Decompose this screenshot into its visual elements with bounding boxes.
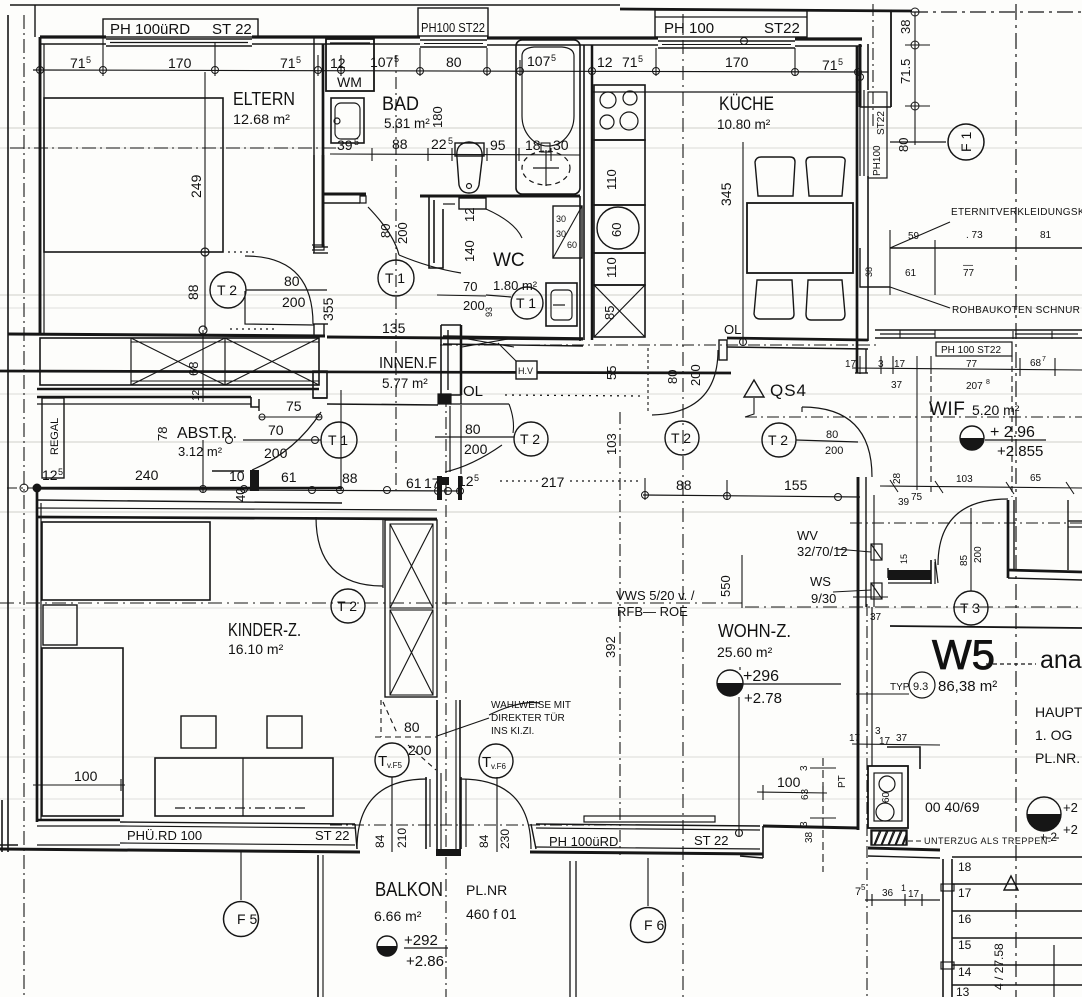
svg-text:T 2: T 2 bbox=[671, 430, 691, 446]
axis dash-dot vertical x683 (kueche/balkon) bbox=[682, 14, 684, 997]
axis dash-dot vertical x867 (stair side) bbox=[866, 604, 868, 997]
stair elevation marker bbox=[1027, 797, 1061, 831]
svg-text:170: 170 bbox=[725, 54, 749, 70]
svg-text:38: 38 bbox=[864, 267, 874, 277]
optional door dashed kinder bbox=[380, 700, 382, 737]
south band right of doors bbox=[531, 824, 536, 849]
svg-text:3.12 m²: 3.12 m² bbox=[178, 444, 223, 459]
svg-text:40: 40 bbox=[233, 488, 248, 502]
svg-text:110: 110 bbox=[604, 257, 619, 278]
balcony bench bbox=[584, 816, 715, 822]
svg-text:107: 107 bbox=[527, 53, 551, 69]
corridor 135 line bbox=[340, 390, 342, 490]
wif tag box bbox=[936, 342, 1012, 356]
bad washing machine WM bbox=[326, 39, 374, 91]
corridor pillar cap bbox=[438, 394, 451, 404]
dotted corridor line bbox=[505, 395, 643, 396]
svg-text:F 5: F 5 bbox=[237, 911, 257, 927]
kueche east wall bbox=[856, 46, 859, 341]
svg-text:550: 550 bbox=[718, 575, 733, 597]
bad toilet bowl bbox=[457, 142, 482, 193]
svg-text:200: 200 bbox=[264, 445, 288, 461]
window eltern bbox=[106, 38, 252, 40]
t3 door leaf bbox=[930, 560, 932, 584]
svg-text:6.66 m²: 6.66 m² bbox=[374, 908, 422, 924]
svg-text:60: 60 bbox=[609, 223, 624, 237]
svg-text:77: 77 bbox=[966, 359, 978, 370]
stair direction triangle bbox=[1004, 876, 1018, 890]
kinder chairs bbox=[181, 716, 216, 748]
svg-text:17: 17 bbox=[849, 733, 861, 744]
kinder south wall solid part bbox=[37, 819, 120, 822]
svg-text:F 6: F 6 bbox=[644, 917, 664, 933]
balkon elevation marker bbox=[377, 936, 397, 956]
svg-text:+2.78: +2.78 bbox=[744, 690, 782, 707]
window bad bbox=[420, 39, 487, 41]
svg-text:10: 10 bbox=[229, 468, 245, 484]
svg-text:17: 17 bbox=[908, 889, 920, 900]
kueche interior north face bbox=[593, 91, 860, 93]
svg-text:71.5: 71.5 bbox=[898, 59, 913, 84]
axis dash-dot vertical x873 (east wall) bbox=[872, 4, 874, 130]
svg-text:T 2: T 2 bbox=[520, 431, 540, 447]
f5 marker line bbox=[240, 852, 242, 900]
vestibule/corridor north band bbox=[327, 337, 583, 339]
stove burners bbox=[600, 92, 616, 108]
svg-text:5: 5 bbox=[296, 55, 301, 65]
svg-text:PHÜ.RD 100: PHÜ.RD 100 bbox=[127, 828, 202, 843]
svg-text:200: 200 bbox=[464, 441, 488, 457]
east upper wall corner down bbox=[859, 44, 862, 107]
svg-text:70: 70 bbox=[268, 422, 284, 438]
wc west wall bbox=[429, 196, 443, 268]
kinder wardrobe top bbox=[42, 522, 210, 600]
eltern 88 dim line bbox=[202, 330, 204, 492]
unterzug hatch box bbox=[871, 830, 907, 845]
leader wahlweise bbox=[437, 718, 489, 736]
svg-text:13: 13 bbox=[956, 985, 970, 997]
svg-text:95: 95 bbox=[490, 137, 506, 153]
svg-text:103: 103 bbox=[956, 474, 973, 485]
svg-text:W5: W5 bbox=[932, 631, 995, 678]
svg-text:107: 107 bbox=[370, 54, 394, 70]
svg-text:80: 80 bbox=[826, 429, 838, 441]
svg-text:H.V: H.V bbox=[518, 366, 533, 376]
svg-text:12.68 m²: 12.68 m² bbox=[233, 112, 291, 127]
svg-text:88: 88 bbox=[342, 470, 358, 486]
svg-text:T 1: T 1 bbox=[328, 432, 348, 448]
svg-text:9.3: 9.3 bbox=[913, 681, 928, 693]
svg-text:T: T bbox=[482, 754, 491, 771]
balcony west edge bbox=[317, 855, 319, 997]
svg-text:18: 18 bbox=[958, 860, 972, 874]
kinder side table bbox=[43, 605, 77, 645]
svg-text:80: 80 bbox=[465, 421, 481, 437]
kitchen counter column bbox=[594, 85, 645, 140]
w5 area north line bbox=[890, 626, 1082, 628]
eltern west wall bbox=[39, 37, 42, 333]
svg-text:KINDER-Z.: KINDER-Z. bbox=[228, 620, 301, 640]
svg-text:ELTERN: ELTERN bbox=[233, 89, 295, 109]
T1 circle entry bbox=[378, 260, 414, 296]
svg-text:36: 36 bbox=[882, 888, 894, 899]
axis dash-dot horizontal y417 WIF bbox=[745, 416, 1082, 418]
svg-text:5.77 m²: 5.77 m² bbox=[382, 376, 428, 391]
svg-text:3: 3 bbox=[799, 765, 810, 771]
wohnz south wall east part bbox=[763, 826, 858, 828]
svg-text:16: 16 bbox=[958, 912, 972, 926]
kinder west wall bbox=[36, 488, 39, 822]
svg-text:+2: +2 bbox=[1063, 822, 1078, 837]
east outer wall top right bbox=[1007, 500, 1010, 578]
hv box bbox=[516, 361, 537, 379]
svg-text:93: 93 bbox=[484, 307, 494, 317]
eternit leader bbox=[890, 222, 950, 248]
svg-text:81: 81 bbox=[1040, 230, 1052, 241]
svg-text:200: 200 bbox=[825, 445, 843, 457]
svg-text:180: 180 bbox=[430, 106, 445, 128]
svg-text:60: 60 bbox=[567, 240, 577, 250]
kueche north wall + window bbox=[594, 36, 658, 39]
vent shaft 30/60 bbox=[553, 206, 582, 258]
svg-text:PL.NR.: PL.NR. bbox=[1035, 750, 1080, 766]
abst 75 dim bbox=[259, 416, 322, 418]
window tag box PH 100 ST22 (kueche) bbox=[655, 10, 807, 37]
wif dashed verticals bbox=[930, 376, 932, 495]
F1 circle bbox=[948, 124, 984, 160]
eltern door stubs bbox=[313, 324, 315, 336]
counter cell 4 bbox=[594, 253, 645, 285]
svg-text:78: 78 bbox=[155, 427, 170, 441]
svg-text:84: 84 bbox=[373, 834, 387, 848]
door T2 wif arc bbox=[802, 407, 872, 477]
wif west wall lower bbox=[857, 532, 860, 830]
kueche table bbox=[747, 203, 853, 273]
svg-text:PH100 ST22: PH100 ST22 bbox=[421, 20, 485, 35]
svg-text:16.10 m²: 16.10 m² bbox=[228, 641, 284, 657]
svg-text:68: 68 bbox=[1030, 358, 1042, 369]
F5 circle bbox=[224, 902, 259, 937]
ws niche marks bbox=[871, 544, 882, 560]
axis dash-dot elbow QS4 bbox=[745, 398, 754, 417]
svg-text:INNEN.F: INNEN.F bbox=[379, 355, 437, 372]
svg-text:207: 207 bbox=[966, 381, 983, 392]
kochnische hatch bbox=[872, 831, 906, 845]
svg-text:12: 12 bbox=[330, 55, 346, 71]
wc 70/200 line bbox=[437, 295, 486, 296]
door T1 entry arc (bad) bbox=[368, 207, 399, 255]
bad west wall bbox=[313, 155, 315, 250]
svg-text:PL.NR: PL.NR bbox=[466, 882, 507, 898]
svg-text:25.60 m²: 25.60 m² bbox=[717, 644, 773, 660]
kueche door post bbox=[719, 340, 727, 360]
svg-text:UNTERZUG ALS TREPPEN-: UNTERZUG ALS TREPPEN- bbox=[924, 836, 1051, 846]
wif dim rows bbox=[852, 368, 1082, 370]
svg-text:WIF: WIF bbox=[929, 399, 965, 420]
svg-text:5.31 m²: 5.31 m² bbox=[384, 116, 430, 131]
svg-text:3: 3 bbox=[799, 821, 810, 827]
svg-text:F 1: F 1 bbox=[958, 132, 974, 152]
svg-text:71: 71 bbox=[70, 55, 86, 71]
T2 circle eltern bbox=[210, 272, 246, 308]
svg-text:30: 30 bbox=[556, 229, 566, 239]
svg-text:22: 22 bbox=[431, 136, 447, 152]
svg-text:PH 100 ST22: PH 100 ST22 bbox=[941, 345, 1001, 356]
svg-text:140: 140 bbox=[462, 240, 477, 262]
witness ticks for top dims bbox=[103, 37, 795, 76]
svg-text:WOHN-Z.: WOHN-Z. bbox=[718, 621, 791, 641]
svg-text:v.F6: v.F6 bbox=[491, 762, 507, 771]
svg-text:5: 5 bbox=[474, 473, 479, 483]
svg-text:+2.86: +2.86 bbox=[406, 953, 444, 970]
abst 70/200 dim bbox=[226, 437, 233, 444]
wohnz 100 dim bbox=[757, 792, 827, 793]
svg-text:T 1: T 1 bbox=[385, 270, 405, 286]
eltern south wall bbox=[8, 334, 325, 336]
kueche east window bbox=[859, 90, 861, 176]
hall north wall lower line bbox=[37, 388, 319, 391]
abst.r door post (filled) bbox=[250, 470, 259, 491]
top border line bbox=[10, 4, 620, 6]
svg-text:230: 230 bbox=[498, 829, 512, 849]
svg-text:+2.855: +2.855 bbox=[997, 443, 1043, 460]
svg-text:88: 88 bbox=[392, 136, 408, 152]
svg-text:WC: WC bbox=[493, 250, 525, 271]
svg-text:200: 200 bbox=[688, 364, 703, 386]
svg-text:200: 200 bbox=[973, 546, 984, 563]
axis dash-dot vertical x24 bbox=[23, 15, 25, 997]
svg-text:T 2: T 2 bbox=[337, 598, 357, 614]
svg-text:ST22: ST22 bbox=[876, 111, 887, 135]
balcony door F6 leaf bbox=[460, 777, 462, 849]
svg-text:37: 37 bbox=[896, 733, 908, 744]
svg-text:7: 7 bbox=[1042, 356, 1046, 363]
svg-text:+292: +292 bbox=[404, 932, 438, 949]
f5 witness line bbox=[391, 777, 393, 852]
svg-text:37: 37 bbox=[870, 612, 882, 623]
door T2 kueche arc bbox=[652, 350, 718, 415]
bad sink cabinet bbox=[331, 98, 364, 143]
svg-text:T 2: T 2 bbox=[768, 432, 788, 448]
niche west line bbox=[871, 607, 873, 766]
svg-text:5: 5 bbox=[861, 883, 866, 892]
svg-text:88: 88 bbox=[185, 284, 201, 300]
svg-text:80: 80 bbox=[284, 273, 300, 289]
svg-text:55: 55 bbox=[604, 366, 619, 380]
T1 circle abst.r bbox=[321, 422, 357, 458]
wif west wall pillar bbox=[857, 477, 860, 532]
svg-text:. 73: . 73 bbox=[966, 230, 983, 241]
svg-text:ETERNITVERKLEIDUNGSKOT: ETERNITVERKLEIDUNGSKOT bbox=[951, 207, 1082, 218]
wc east wall bbox=[579, 196, 581, 341]
svg-text:345: 345 bbox=[718, 182, 734, 206]
svg-text:4 / 27.58: 4 / 27.58 bbox=[992, 943, 1006, 990]
svg-text:5: 5 bbox=[838, 57, 843, 67]
svg-text:WAHLWEISE MIT: WAHLWEISE MIT bbox=[491, 700, 571, 711]
svg-text:5: 5 bbox=[551, 53, 556, 63]
T2 circle wif bbox=[762, 423, 796, 457]
kinder north wall band bbox=[37, 487, 342, 490]
qs4 triangle bbox=[744, 380, 764, 397]
svg-text:80: 80 bbox=[446, 54, 462, 70]
svg-text:ST 22: ST 22 bbox=[694, 833, 728, 848]
svg-text:18: 18 bbox=[525, 137, 541, 153]
scan streak lines bbox=[0, 127, 1082, 129]
svg-text:WV: WV bbox=[797, 528, 818, 543]
east mid dims y248-287 bbox=[889, 230, 891, 295]
svg-text:8: 8 bbox=[986, 379, 990, 386]
svg-text:+296: +296 bbox=[743, 668, 779, 685]
svg-text:ST 22: ST 22 bbox=[315, 828, 349, 843]
svg-text:460 f 01: 460 f 01 bbox=[466, 906, 517, 922]
sw corner wall bbox=[0, 844, 18, 846]
svg-text:T: T bbox=[378, 753, 387, 770]
svg-text:T 3: T 3 bbox=[960, 600, 980, 616]
wohnz 550 dim bbox=[741, 555, 743, 608]
wif lower door arc bbox=[938, 499, 1008, 565]
svg-text:17: 17 bbox=[845, 359, 857, 370]
svg-text:5: 5 bbox=[58, 467, 63, 477]
svg-text:12: 12 bbox=[42, 467, 58, 483]
t3 wall under door bbox=[888, 570, 931, 580]
wardrobe closet row (X boxes) bbox=[40, 338, 319, 385]
bed dotted foot bbox=[228, 251, 254, 253]
kinder south window band bbox=[120, 822, 355, 824]
axis dash-dot horizontal y603 bbox=[0, 602, 745, 604]
balcony divider line bbox=[569, 861, 571, 997]
svg-text:OL: OL bbox=[463, 383, 483, 400]
svg-text:75: 75 bbox=[911, 492, 923, 503]
window tag box PH100 ST22 (bad) bbox=[418, 8, 488, 36]
upper east dimension wall lines bbox=[860, 106, 891, 108]
counter cell 2 bbox=[594, 140, 645, 205]
f6 witness line bbox=[496, 777, 498, 852]
east top dims bbox=[914, 12, 916, 145]
svg-text:80: 80 bbox=[378, 224, 393, 238]
T circle F5 bbox=[375, 743, 409, 777]
svg-text:RFB— ROE: RFB— ROE bbox=[617, 604, 688, 619]
hv leader bbox=[498, 343, 517, 362]
svg-text:12: 12 bbox=[462, 208, 477, 222]
svg-text:30: 30 bbox=[556, 214, 566, 224]
svg-text:5.20 m²: 5.20 m² bbox=[972, 402, 1020, 418]
svg-text:+ 2: + 2 bbox=[1040, 830, 1057, 844]
svg-text:PT: PT bbox=[837, 775, 848, 788]
svg-text:170: 170 bbox=[168, 55, 192, 71]
balcony door F6 arc bbox=[461, 779, 531, 849]
bad toilet tank bbox=[455, 143, 484, 156]
axis dash-dot vertical x446 (closet/balcony pillar) bbox=[445, 395, 447, 997]
wc hand basin bbox=[546, 283, 577, 326]
svg-text:12: 12 bbox=[458, 473, 474, 489]
svg-text:71: 71 bbox=[822, 57, 838, 73]
bad basin dashed circle bbox=[522, 151, 570, 185]
svg-text:1.80 m²: 1.80 m² bbox=[493, 278, 538, 293]
svg-text:ROHBAUKOTEN SCHNUR: ROHBAUKOTEN SCHNUR bbox=[952, 305, 1080, 316]
T3 circle bbox=[954, 591, 988, 625]
kochnische unit bbox=[887, 747, 920, 769]
bad south wall piece bbox=[324, 193, 366, 196]
svg-text:17: 17 bbox=[879, 736, 891, 747]
svg-text:+ 2.96: + 2.96 bbox=[990, 424, 1035, 441]
door T2 corridor-wohnz leaf+arc bbox=[450, 403, 509, 405]
svg-text:PH100: PH100 bbox=[872, 145, 883, 176]
kinder 100 dim bbox=[33, 784, 125, 786]
svg-text:39: 39 bbox=[898, 497, 910, 508]
svg-text:ABST.R.: ABST.R. bbox=[177, 425, 237, 442]
wc/bad south wall of bad bbox=[420, 195, 580, 198]
svg-text:80: 80 bbox=[665, 370, 680, 384]
bottom dim chain y489 bbox=[7, 487, 37, 489]
south wall piece at arc start bbox=[355, 824, 357, 849]
svg-text:17: 17 bbox=[894, 359, 906, 370]
wohnz elevation line down bbox=[739, 667, 741, 670]
svg-text:85: 85 bbox=[602, 306, 617, 320]
abst.r west shelf REGAL bbox=[42, 398, 64, 478]
wc south wall bbox=[443, 336, 583, 338]
svg-text:86,38 m²: 86,38 m² bbox=[938, 678, 997, 695]
axis dash-dot horizontal y825 balcony doors bbox=[330, 824, 645, 826]
svg-text:103: 103 bbox=[604, 433, 619, 455]
svg-text:32/70/12: 32/70/12 bbox=[797, 544, 848, 559]
svg-text:200: 200 bbox=[463, 298, 485, 313]
T2 circle kueche bbox=[665, 421, 699, 455]
svg-text:68: 68 bbox=[186, 362, 201, 376]
svg-text:5: 5 bbox=[354, 137, 359, 147]
F6 circle bbox=[631, 908, 666, 943]
T circle F6 bbox=[479, 744, 513, 778]
bathtub bbox=[516, 40, 580, 194]
svg-text:217: 217 bbox=[541, 474, 565, 490]
svg-text:14: 14 bbox=[958, 965, 972, 979]
kochnische dims bbox=[852, 744, 940, 745]
svg-text:5: 5 bbox=[638, 54, 643, 64]
wif witness line bbox=[916, 356, 918, 490]
svg-text:15: 15 bbox=[958, 938, 972, 952]
svg-text:ST22: ST22 bbox=[764, 20, 800, 37]
svg-text:KÜCHE: KÜCHE bbox=[719, 94, 774, 115]
closet right pillar bbox=[313, 371, 327, 398]
kueche chairs top bbox=[755, 157, 795, 196]
central pillar bbox=[436, 700, 438, 851]
svg-text:PH 100üRD: PH 100üRD bbox=[110, 21, 190, 38]
svg-text:+2: +2 bbox=[1063, 800, 1078, 815]
svg-text:61: 61 bbox=[406, 475, 422, 491]
T2 circle kinder bbox=[331, 589, 365, 623]
svg-text:155: 155 bbox=[784, 477, 808, 493]
svg-text:17: 17 bbox=[424, 475, 440, 491]
svg-text:71: 71 bbox=[622, 54, 638, 70]
svg-text:59: 59 bbox=[908, 231, 920, 242]
svg-text:5: 5 bbox=[86, 55, 91, 65]
svg-text:T 1: T 1 bbox=[516, 295, 536, 311]
svg-text:61: 61 bbox=[281, 469, 297, 485]
svg-text:WM: WM bbox=[337, 74, 362, 90]
shaft X brace bbox=[462, 338, 514, 347]
axis dash-dot vertical x396 (BAD/entry) bbox=[395, 55, 397, 490]
bad dim row y154 bbox=[330, 154, 580, 155]
svg-text:T 2: T 2 bbox=[217, 282, 237, 298]
eltern 249 dim bbox=[204, 72, 206, 330]
svg-text:1: 1 bbox=[901, 883, 906, 893]
svg-text:30: 30 bbox=[553, 137, 569, 153]
axis dash-dot horizontal y148 bbox=[10, 147, 340, 149]
svg-text:200: 200 bbox=[282, 294, 306, 310]
steps bbox=[952, 856, 1082, 858]
wif elevation marker bbox=[960, 426, 984, 450]
south wall to stair bbox=[868, 848, 940, 850]
kueche west wall bbox=[583, 45, 585, 340]
